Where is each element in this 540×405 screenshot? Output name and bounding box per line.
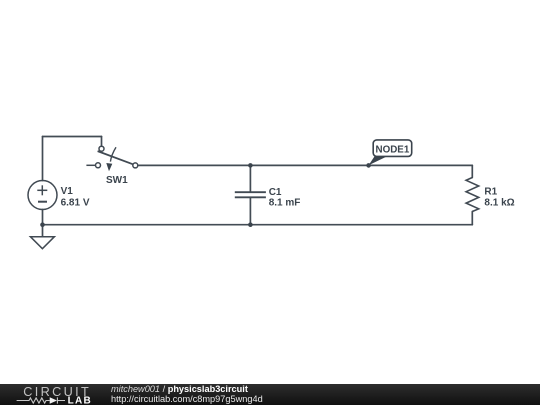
wire bottom rail xyxy=(43,224,473,226)
ground xyxy=(30,237,54,249)
svg-text:8.1 mF: 8.1 mF xyxy=(269,198,301,209)
svg-text:6.81 V: 6.81 V xyxy=(61,198,90,209)
throw2 circle xyxy=(96,163,101,168)
wire C1 top lead xyxy=(249,165,251,192)
wire V1 top xyxy=(42,137,44,181)
throw2 stub wire xyxy=(86,164,95,166)
resistor R1 xyxy=(466,178,479,212)
junction dot NODE1 xyxy=(366,163,371,168)
wire top-left horizontal xyxy=(43,136,102,138)
switch SW1 xyxy=(86,146,137,171)
CircuitLab logo xyxy=(12,384,102,405)
svg-text:8.1 kΩ: 8.1 kΩ xyxy=(484,198,514,209)
svg-text:SW1: SW1 xyxy=(106,175,128,186)
pole circle xyxy=(133,163,138,168)
junction dot C1 bottom xyxy=(248,222,253,227)
voltage source V1 xyxy=(28,181,57,210)
node NODE1 callout xyxy=(369,140,412,165)
actuation arc xyxy=(110,147,116,161)
svg-text:R1: R1 xyxy=(484,187,497,198)
wire R1 bottom lead xyxy=(471,212,473,225)
svg-text:C1: C1 xyxy=(269,187,282,198)
wire C1 bottom lead xyxy=(249,197,251,224)
svg-text:LAB: LAB xyxy=(68,395,92,405)
throw1 circle xyxy=(99,146,104,151)
footer bar xyxy=(0,384,540,405)
wire R1 top lead xyxy=(471,165,473,177)
footer credit line xyxy=(111,384,263,404)
lever xyxy=(98,151,133,164)
junction dot C1 top xyxy=(248,163,253,168)
capacitor C1 xyxy=(235,192,266,197)
junction dot V1 bottom xyxy=(40,222,45,227)
svg-text:V1: V1 xyxy=(61,186,74,197)
wire top rail xyxy=(138,164,473,166)
wire switch throw drop xyxy=(101,137,103,147)
wire V1 bottom to ground xyxy=(42,210,44,237)
arrowhead xyxy=(106,163,112,171)
svg-text:NODE1: NODE1 xyxy=(376,144,410,155)
